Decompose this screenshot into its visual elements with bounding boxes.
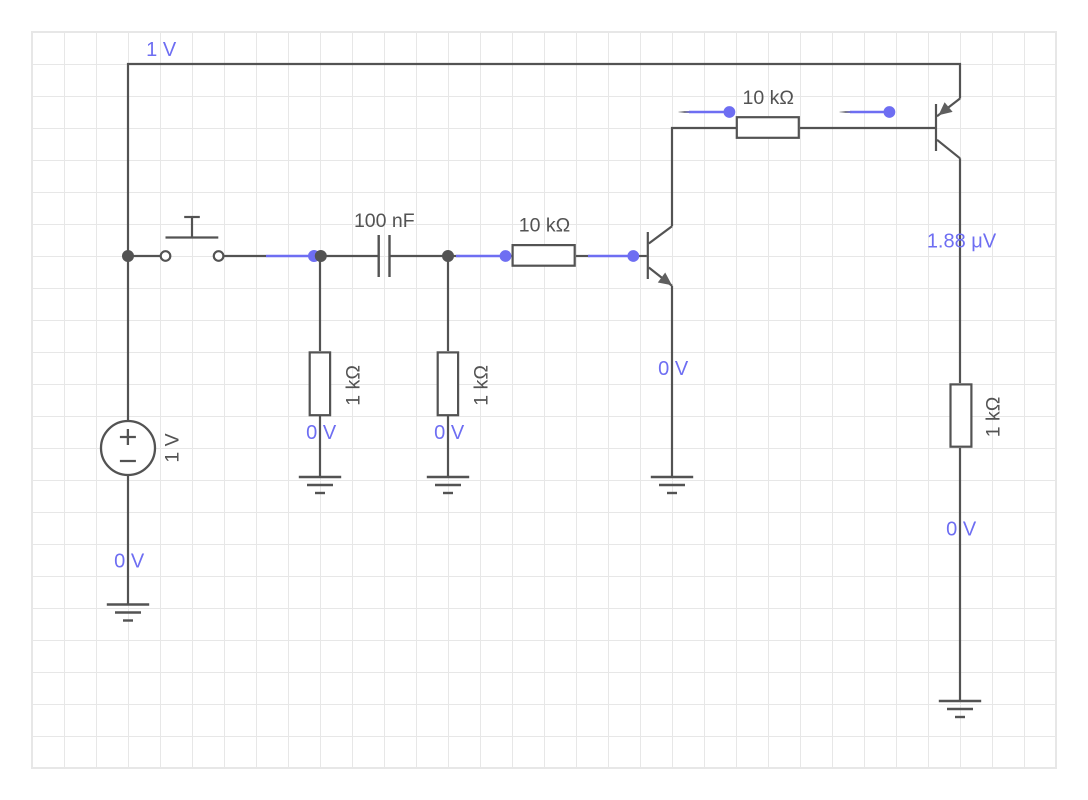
svg-text:0 V: 0 V (306, 422, 337, 444)
svg-text:10 kΩ: 10 kΩ (519, 214, 570, 236)
svg-text:1 kΩ: 1 kΩ (983, 397, 1005, 438)
svg-text:1.88 μV: 1.88 μV (927, 231, 997, 253)
svg-text:1 kΩ: 1 kΩ (471, 365, 493, 406)
svg-text:100 nF: 100 nF (354, 210, 415, 232)
svg-text:0 V: 0 V (658, 358, 689, 380)
svg-text:1 V: 1 V (146, 39, 177, 61)
svg-text:10 kΩ: 10 kΩ (742, 87, 793, 109)
svg-text:0 V: 0 V (946, 519, 977, 541)
svg-text:0 V: 0 V (114, 551, 145, 573)
svg-text:1 kΩ: 1 kΩ (343, 365, 365, 406)
svg-text:1 V: 1 V (162, 433, 184, 462)
svg-text:0 V: 0 V (434, 422, 465, 444)
